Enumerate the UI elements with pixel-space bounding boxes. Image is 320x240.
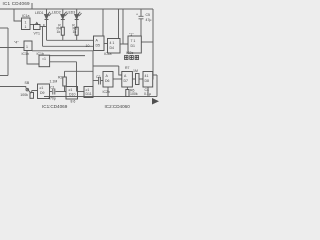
svg-text:1: 1	[25, 25, 27, 29]
wire LED2 anode	[62, 9, 64, 14]
svg-text:100k: 100k	[20, 93, 28, 97]
svg-text:LED2: LED2	[52, 11, 61, 15]
wire VT1 to LED1 node	[40, 26, 47, 28]
svg-text:1: 1	[25, 21, 27, 25]
svg-text:1k: 1k	[73, 30, 77, 34]
wire rail drop to box A	[102, 9, 104, 36]
wire C5 to box C	[140, 19, 142, 36]
wire LED1 anode	[46, 9, 48, 14]
wire bus3 from IC1b	[32, 50, 93, 52]
capacitor C5	[139, 16, 144, 19]
wire rail drop third	[123, 9, 128, 44]
svg-text:IC1:CD4069: IC1:CD4069	[42, 104, 68, 109]
wire IC1c output	[50, 61, 77, 63]
wire input to IC1b	[0, 47, 24, 49]
svg-text:D6: D6	[105, 79, 110, 83]
svg-text:=1: =1	[42, 57, 46, 61]
IC2 box F	[143, 72, 153, 88]
gate IC1e box	[66, 87, 78, 100]
svg-text:R7: R7	[125, 66, 130, 70]
svg-text:47µ: 47µ	[146, 18, 152, 22]
wire IC2b ground	[107, 87, 109, 97]
wire bus3 drop to IC1f	[92, 51, 94, 87]
gate IC1d box	[38, 84, 50, 99]
wire C2 to IC2b	[101, 80, 103, 82]
svg-text:≥1: ≥1	[69, 88, 73, 92]
wire R4 bottom to bus1	[62, 35, 64, 40]
svg-text:C1: C1	[50, 86, 55, 90]
svg-text:IC1 CD4069: IC1 CD4069	[3, 1, 31, 6]
svg-text:VT1: VT1	[34, 32, 40, 36]
wire into C2	[93, 80, 98, 82]
wire left edge vertical	[7, 28, 9, 76]
wire rail right drop to IC2d	[152, 9, 154, 79]
svg-text:IC2b: IC2b	[103, 90, 110, 94]
IC2 box B	[108, 39, 121, 54]
wire drop to gate row	[76, 62, 78, 92]
svg-text:"1": "1"	[129, 33, 134, 37]
svg-text:1M: 1M	[133, 69, 138, 73]
wire gate D to C1	[49, 91, 52, 93]
wire box B to box C	[120, 43, 128, 45]
wire +V tick	[31, 3, 33, 9]
svg-text:1.1M: 1.1M	[50, 80, 58, 84]
label controller	[125, 56, 139, 60]
wire LED2 cathode to R4	[62, 20, 64, 27]
svg-text:10: 10	[86, 44, 90, 48]
svg-text:R2: R2	[58, 76, 63, 80]
svg-text:+: +	[136, 13, 138, 17]
gate IC1b box	[24, 41, 32, 51]
wire R7 to IC2d	[139, 78, 143, 80]
svg-text:100k: 100k	[130, 92, 138, 96]
resistor under SB	[30, 93, 34, 99]
wire IC1f output to IC2	[93, 66, 122, 75]
svg-text:8 6: 8 6	[71, 100, 76, 104]
capacitor C2	[99, 77, 101, 85]
wire bus4	[50, 55, 85, 57]
IC2 box A	[94, 36, 105, 51]
wire LED1 cathode	[46, 20, 48, 40]
wire IC2c to R7	[132, 78, 135, 80]
svg-text:D10: D10	[69, 93, 75, 97]
wire SB to gate D	[32, 91, 38, 93]
svg-text:IC1a: IC1a	[22, 14, 29, 18]
wire IC2d output	[153, 75, 157, 97]
svg-text:41: 41	[145, 74, 149, 78]
svg-text:D4: D4	[110, 46, 115, 50]
svg-text:SB: SB	[25, 81, 30, 85]
svg-text:D7: D7	[124, 79, 129, 83]
resistor R6	[126, 90, 129, 97]
wire LED3 anode	[76, 9, 78, 14]
end mark arrow	[152, 98, 159, 105]
svg-text:IC2c: IC2c	[126, 51, 133, 55]
wire IC2b to IC2c	[113, 78, 122, 80]
wire box C output to right	[141, 41, 153, 43]
svg-text:470p: 470p	[48, 97, 56, 101]
push button SB	[26, 87, 32, 93]
resistor R5	[75, 27, 78, 35]
IC2 box C	[128, 36, 141, 53]
svg-text:IC2:CD4060: IC2:CD4060	[105, 104, 131, 109]
IC2 box E	[122, 72, 133, 88]
wire bus2 y46	[43, 45, 94, 47]
wire VT node drop to bus2	[42, 27, 44, 47]
svg-text:"4": "4"	[14, 41, 19, 45]
resistor R2	[63, 77, 67, 86]
svg-text:IC2a: IC2a	[104, 52, 111, 56]
wire IC1a output to VT1	[30, 24, 34, 26]
svg-text:D8: D8	[145, 79, 150, 83]
svg-text:LED3: LED3	[67, 11, 76, 15]
gate IC1f box	[84, 87, 93, 98]
gate IC1a box	[22, 18, 31, 30]
LED1	[45, 12, 52, 20]
wire LED3 cathode to R5	[76, 20, 78, 27]
wire C5 from rail	[140, 9, 142, 16]
svg-text:4 1: 4 1	[110, 41, 115, 45]
svg-text:D1: D1	[131, 44, 136, 48]
wire IC2c ground via R6	[126, 87, 128, 90]
svg-text:IC1b: IC1b	[37, 52, 44, 56]
wire R2 top	[64, 71, 66, 77]
gate IC1c box	[39, 55, 50, 66]
svg-text:0.1µ: 0.1µ	[144, 92, 151, 96]
wire SB input	[0, 86, 26, 88]
wire C1 to gate E	[56, 91, 67, 93]
svg-text:D5: D5	[96, 44, 101, 48]
resistor R7	[136, 74, 140, 85]
capacitor C1	[53, 89, 55, 95]
resistor R4	[61, 27, 64, 35]
wire rail drop to box B	[118, 9, 120, 39]
wire mid horizontal to IC2	[65, 70, 94, 72]
wire R2 bottom	[64, 86, 66, 92]
svg-text:1k: 1k	[57, 30, 61, 34]
svg-text:IC1b: IC1b	[22, 52, 29, 56]
transistor VT1	[34, 25, 41, 30]
svg-text:D9: D9	[40, 91, 45, 95]
wire rail drop to IC1a input	[14, 9, 22, 21]
wire left edge lower stub	[0, 75, 8, 77]
svg-text:7 1: 7 1	[131, 39, 136, 43]
node A left input wire	[0, 27, 8, 29]
svg-text:C5: C5	[146, 13, 151, 17]
svg-text:C2: C2	[96, 75, 101, 79]
wire R5 bottom to bus1	[76, 35, 78, 40]
svg-text:1: 1	[26, 45, 28, 49]
wire top +V rail	[0, 8, 153, 10]
IC2 box D	[103, 72, 113, 88]
wire IC1b to IC1c stub	[27, 51, 40, 65]
svg-text:LED1: LED1	[35, 11, 44, 15]
svg-text:D11: D11	[86, 92, 92, 96]
LED3	[75, 12, 82, 20]
wire gate E to gate F	[78, 91, 84, 93]
svg-text:≥1: ≥1	[40, 86, 44, 90]
wire bus1 y40	[47, 39, 94, 41]
wire bottom ground rail	[44, 96, 157, 98]
wire box A to box B	[104, 43, 108, 45]
wire IC2d ground	[147, 87, 149, 97]
LED2	[61, 12, 68, 20]
